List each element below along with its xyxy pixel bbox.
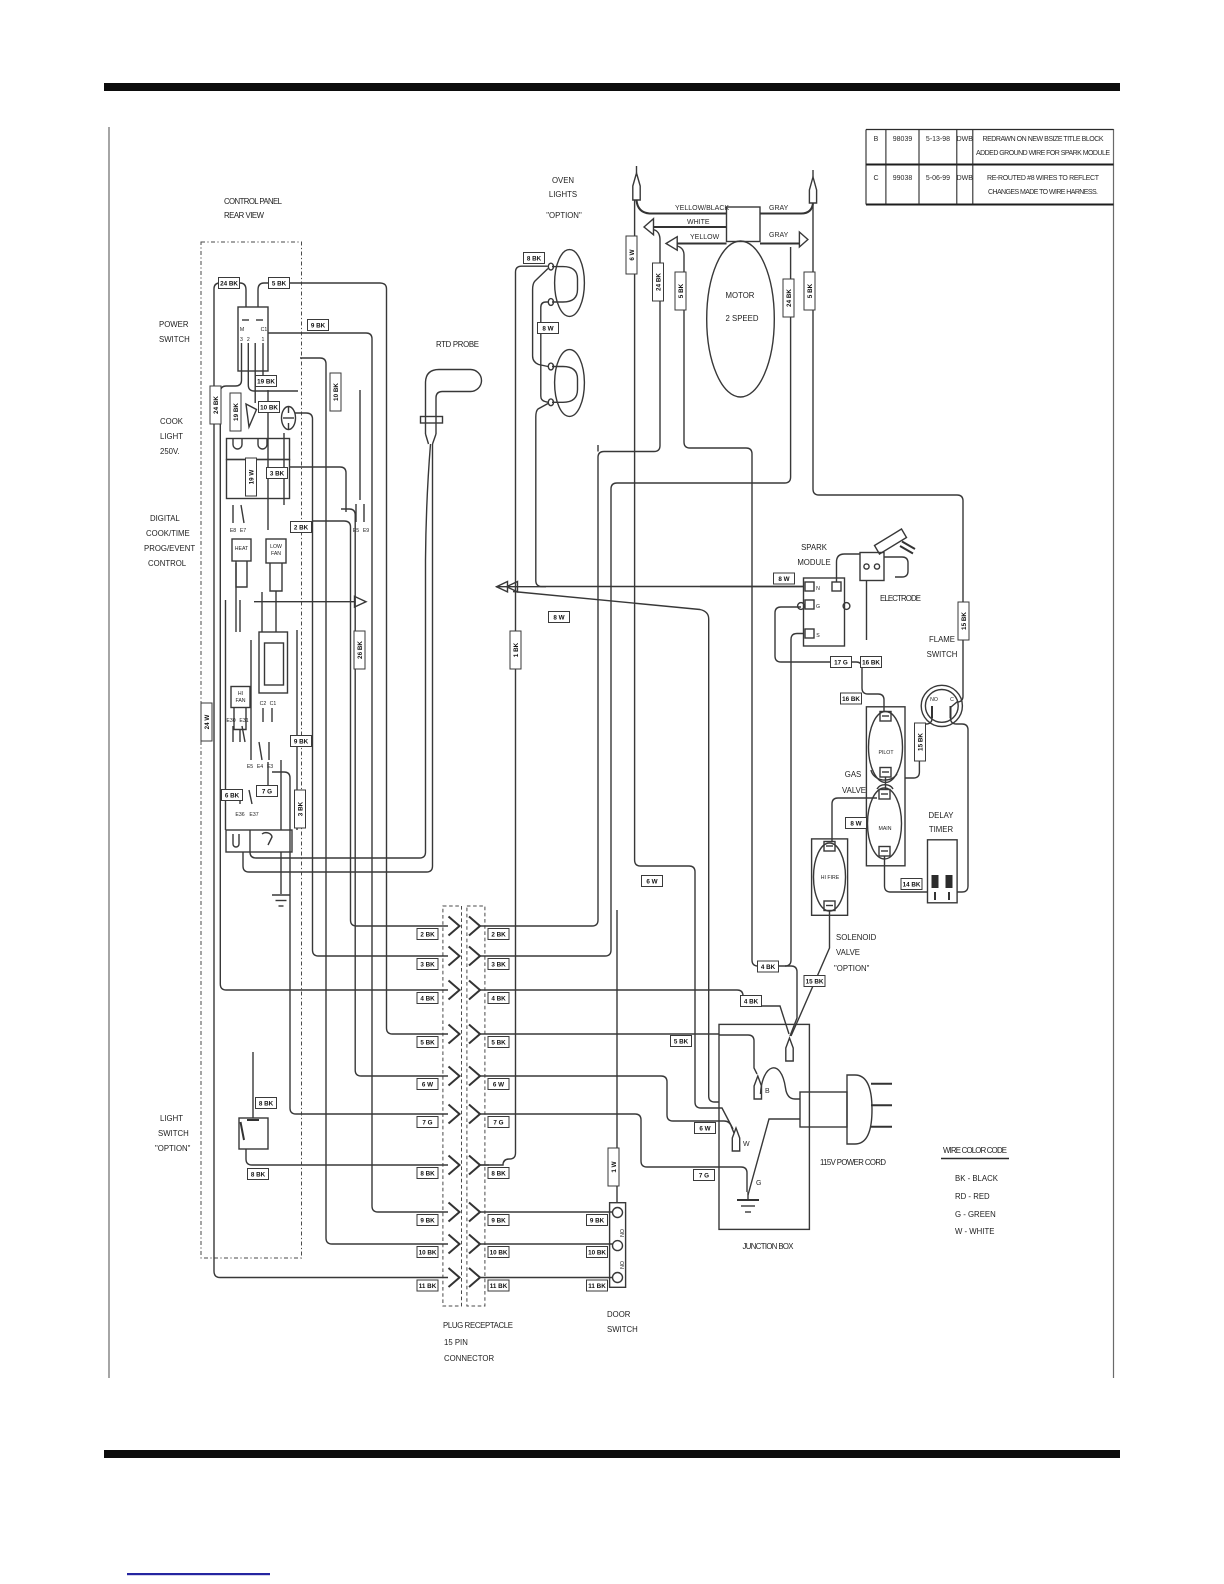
wire: row 2 to white spade — [480, 230, 660, 927]
svg-text:7 G: 7 G — [699, 1173, 709, 1180]
electrode terminal block — [860, 553, 884, 581]
rotated label 15 BK gas — [915, 723, 926, 761]
wire: motor gray upper — [760, 203, 813, 214]
plug pin 5 label — [417, 1037, 438, 1048]
svg-text:5 BK: 5 BK — [678, 283, 685, 298]
svg-text:4 BK: 4 BK — [491, 996, 506, 1003]
svg-text:24 BK: 24 BK — [786, 289, 793, 307]
receptacle pin 6 label — [488, 1079, 509, 1090]
svg-text:NO: NO — [620, 1229, 626, 1237]
svg-text:17 G: 17 G — [834, 660, 848, 667]
wire: row 11 to door switch — [480, 1277, 613, 1279]
svg-text:9 BK: 9 BK — [590, 1218, 605, 1225]
svg-text:E37: E37 — [249, 812, 258, 818]
svg-text:250V.: 250V. — [160, 447, 180, 456]
plug pin 4 label — [417, 993, 438, 1004]
svg-text:24 BK: 24 BK — [220, 281, 238, 288]
delay timer box — [928, 840, 958, 903]
power cord block — [800, 1092, 847, 1127]
wire label 19 BK — [256, 376, 277, 387]
svg-text:3 BK: 3 BK — [270, 471, 285, 478]
svg-text:10 BK: 10 BK — [588, 1250, 606, 1257]
wire: gas valve 8 W to solenoid — [832, 798, 877, 842]
svg-text:PILOT: PILOT — [879, 750, 895, 756]
connector pin 5 arrows — [449, 1025, 481, 1044]
wire label 7 G right — [694, 1170, 715, 1181]
wire: bulb 2 to spark module 8 W — [536, 404, 804, 587]
wire label 4 BK a — [758, 961, 779, 972]
svg-text:SWITCH: SWITCH — [927, 650, 958, 659]
wire: row 6 into junction — [480, 1076, 719, 1121]
rotated label 1 W door — [608, 1148, 619, 1186]
svg-text:PLUG RECEPTACLE: PLUG RECEPTACLE — [443, 1321, 513, 1330]
svg-text:24 W: 24 W — [204, 715, 211, 730]
svg-text:DWB: DWB — [957, 175, 974, 182]
wire: door switch riser — [616, 910, 618, 1202]
rotated label 5 BK motor right — [804, 272, 815, 310]
svg-text:C1: C1 — [261, 327, 268, 333]
plug pin 2 label — [417, 929, 438, 940]
wire: flame switch left pin to gas valve — [905, 718, 932, 778]
rotated label 24 W panel — [201, 703, 212, 741]
wire: spark to electrode block — [837, 554, 861, 582]
receptacle pin 5 label — [488, 1037, 509, 1048]
digital control relay box — [259, 632, 288, 693]
spade pair on 8 W line — [497, 582, 518, 592]
svg-text:E5: E5 — [247, 764, 253, 770]
svg-text:RD - RED: RD - RED — [955, 1192, 990, 1201]
svg-text:FLAME: FLAME — [929, 635, 955, 644]
svg-text:8 W: 8 W — [850, 821, 861, 828]
control panel dashed outline — [201, 242, 302, 1258]
wire label 6 BK mid — [222, 790, 243, 801]
connector pin 8 arrows — [449, 1156, 481, 1175]
wire: junction internal to W — [719, 1121, 734, 1133]
svg-text:8 BK: 8 BK — [259, 1101, 274, 1108]
svg-text:11 BK: 11 BK — [490, 1283, 508, 1290]
svg-text:7 G: 7 G — [493, 1120, 503, 1127]
svg-text:VALVE: VALVE — [836, 948, 860, 957]
connector pin 11 arrows — [449, 1268, 481, 1287]
connector pin 9 arrows — [449, 1203, 481, 1222]
svg-text:8 BK: 8 BK — [420, 1171, 435, 1178]
wire label 2 BK — [291, 522, 312, 533]
wire: panel vertical L — [239, 729, 241, 742]
svg-text:FAN: FAN — [271, 551, 281, 557]
wire label 9 BK — [308, 320, 329, 331]
svg-text:GRAY: GRAY — [769, 232, 789, 239]
wire 8 BK: light switch to row 8 — [246, 1149, 448, 1165]
sheet right border — [1113, 129, 1115, 1378]
svg-text:CONNECTOR: CONNECTOR — [444, 1354, 494, 1363]
wire to row 10 — [300, 358, 448, 1244]
svg-text:DELAY: DELAY — [929, 811, 955, 820]
rotated label 10 BK panel — [330, 373, 341, 411]
spark module box — [804, 578, 845, 646]
wire: panel 8 W feed with spade — [254, 601, 354, 603]
svg-text:LIGHT: LIGHT — [160, 432, 183, 441]
wire: panel vertical F — [261, 592, 263, 632]
svg-text:WIRE COLOR CODE: WIRE COLOR CODE — [943, 1146, 1007, 1155]
svg-text:10 BK: 10 BK — [333, 383, 340, 401]
wire: electrode block down — [866, 581, 868, 641]
junction bullet B — [754, 1076, 761, 1099]
svg-text:TIMER: TIMER — [929, 825, 954, 834]
svg-text:MOTOR: MOTOR — [726, 291, 755, 300]
rotated label 5 BK motor left — [675, 272, 686, 310]
svg-text:GAS: GAS — [845, 770, 861, 779]
connector pin 2 arrows — [449, 917, 481, 936]
svg-text:2 BK: 2 BK — [491, 932, 506, 939]
wire: spark S to 4 BK run — [785, 634, 804, 967]
wire label 8 BK switch top — [256, 1098, 277, 1109]
wire: rtd pair outer — [243, 444, 433, 872]
wire label 15 BK — [804, 976, 825, 987]
svg-text:COOK: COOK — [160, 417, 184, 426]
svg-text:CHANGES MADE TO WIRE HARNESS.: CHANGES MADE TO WIRE HARNESS. — [988, 189, 1098, 196]
svg-text:5 BK: 5 BK — [674, 1039, 689, 1046]
wire: panel vertical C — [296, 630, 298, 830]
svg-text:1 W: 1 W — [611, 1161, 618, 1172]
wire: panel vertical B — [283, 433, 285, 505]
svg-text:8 BK: 8 BK — [491, 1171, 506, 1178]
svg-text:2 SPEED: 2 SPEED — [726, 314, 759, 323]
svg-text:4 BK: 4 BK — [420, 996, 435, 1003]
bullet connector (motor top right) — [809, 177, 816, 203]
svg-text:"OPTION": "OPTION" — [546, 211, 582, 220]
wire 4 BK: power switch pin to row 4 — [220, 375, 448, 990]
wire: row 3 to gray spade — [480, 247, 791, 956]
rotated label mid drop — [354, 631, 365, 669]
svg-text:ELECTRODE: ELECTRODE — [880, 594, 921, 603]
oven light bulb 2 — [555, 350, 585, 417]
wire: spark module input 8 W — [700, 586, 804, 588]
svg-text:MODULE: MODULE — [797, 558, 830, 567]
svg-text:5 BK: 5 BK — [491, 1040, 506, 1047]
svg-text:9 BK: 9 BK — [311, 323, 326, 330]
svg-text:14 BK: 14 BK — [903, 882, 921, 889]
svg-text:15 PIN: 15 PIN — [444, 1338, 468, 1347]
wire label 7 G mid — [257, 786, 278, 797]
wire label 5 BK — [269, 278, 290, 289]
wire: flame switch right pin to delay timer — [951, 718, 969, 892]
wire 5 BK: power switch top to row 5 — [258, 283, 448, 1034]
svg-text:SWITCH: SWITCH — [159, 335, 190, 344]
svg-text:1: 1 — [262, 337, 265, 343]
wire 8 W: spark feed diagonal — [513, 592, 719, 1103]
svg-text:9 BK: 9 BK — [294, 739, 309, 746]
svg-text:YELLOW/BLACK: YELLOW/BLACK — [675, 205, 729, 212]
wire label 8 W spark — [774, 573, 795, 584]
LOW FAN relay — [266, 539, 286, 563]
junction bullet W — [732, 1128, 739, 1151]
wire: solenoid to junction 15 BK — [791, 911, 830, 1037]
svg-text:8 BK: 8 BK — [251, 1172, 266, 1179]
svg-text:10 BK: 10 BK — [260, 405, 278, 412]
wire: panel vertical A — [267, 390, 269, 530]
plug pin 8 label — [417, 1168, 438, 1179]
svg-text:3 BK: 3 BK — [298, 801, 305, 816]
rotated label 3 BK panel — [295, 790, 306, 828]
wire label 5 BK right — [671, 1036, 692, 1047]
svg-text:6 W: 6 W — [493, 1082, 504, 1089]
wire label 16 BK a — [861, 657, 882, 668]
main coil — [868, 788, 902, 859]
svg-text:JUNCTION BOX: JUNCTION BOX — [743, 1242, 795, 1251]
svg-text:8 W: 8 W — [542, 326, 553, 333]
svg-text:26 BK: 26 BK — [357, 641, 364, 659]
svg-text:W: W — [743, 1141, 750, 1148]
svg-text:G: G — [816, 604, 820, 610]
rotated label 1 BK row8 line — [510, 631, 521, 669]
wire: panel vertical D — [359, 390, 361, 500]
gas valve box — [866, 707, 905, 866]
receptacle pin 11 label — [488, 1280, 509, 1291]
svg-text:5-06-99: 5-06-99 — [926, 175, 950, 182]
power switch S1 — [238, 307, 268, 371]
wire: gray bullet to flame switch — [813, 203, 963, 707]
wire label 10 BK — [259, 402, 280, 413]
spade connector (yellow wire) — [666, 237, 677, 251]
svg-text:2 BK: 2 BK — [420, 932, 435, 939]
wire: panel vertical K — [239, 600, 241, 632]
wire: panel vertical M — [267, 762, 269, 790]
svg-text:DOOR: DOOR — [607, 1310, 631, 1319]
electrode — [875, 529, 907, 554]
electrode bracket — [884, 557, 908, 577]
HI FAN relay — [231, 687, 250, 708]
svg-text:HI FIRE: HI FIRE — [821, 875, 840, 881]
svg-text:15 BK: 15 BK — [961, 612, 968, 630]
svg-text:9 BK: 9 BK — [420, 1218, 435, 1225]
svg-text:10 BK: 10 BK — [490, 1250, 508, 1257]
rotated label power left a — [210, 386, 221, 424]
spade connector (gray wire right) — [799, 232, 808, 247]
svg-text:15 BK: 15 BK — [918, 733, 925, 751]
svg-text:1 BK: 1 BK — [513, 642, 520, 657]
rotated label 24 BK motor left — [653, 263, 664, 301]
svg-text:E9: E9 — [363, 528, 369, 534]
wire label 16 BK b — [841, 693, 862, 704]
wire: main to delay timer 14 BK — [885, 856, 928, 892]
contacts E5 E4 E3 — [251, 742, 269, 760]
light switch — [239, 1118, 268, 1149]
motor M1 2-speed — [707, 241, 775, 397]
svg-text:7 G: 7 G — [262, 789, 272, 796]
wire: motor gray lower — [760, 243, 799, 245]
wire: yellow spade to junction 4 BK — [677, 246, 797, 1036]
svg-text:B: B — [874, 136, 879, 143]
svg-text:"OPTION": "OPTION" — [834, 964, 870, 973]
svg-text:11 BK: 11 BK — [588, 1283, 606, 1290]
svg-text:C2: C2 — [260, 701, 267, 707]
svg-text:10 BK: 10 BK — [419, 1250, 437, 1257]
sheet left border — [108, 127, 110, 1378]
svg-text:HEAT: HEAT — [235, 546, 249, 552]
svg-text:C: C — [873, 175, 878, 182]
svg-text:PROG/EVENT: PROG/EVENT — [144, 544, 195, 553]
wire: 6 W bullet drop to junction — [635, 200, 733, 1129]
wire: row 9 to door switch — [480, 1211, 613, 1213]
plug pin 10 label — [417, 1247, 438, 1258]
svg-text:E36: E36 — [235, 812, 244, 818]
svg-text:E5: E5 — [353, 528, 359, 534]
wire label 24 BK — [219, 278, 240, 289]
svg-text:SWITCH: SWITCH — [158, 1129, 189, 1138]
svg-text:E8: E8 — [230, 528, 236, 534]
svg-text:DIGITAL: DIGITAL — [150, 514, 180, 523]
svg-text:NO: NO — [930, 697, 938, 703]
svg-text:B: B — [765, 1088, 770, 1095]
wire: panel vertical H — [225, 600, 227, 830]
svg-text:6 W: 6 W — [646, 879, 657, 886]
power plug — [847, 1075, 872, 1144]
receptacle pin 4 label — [488, 993, 509, 1004]
pilot coil — [869, 712, 903, 783]
svg-text:YELLOW: YELLOW — [690, 234, 720, 241]
bottom rule bar — [104, 1450, 1120, 1458]
wire: motor white — [654, 226, 727, 228]
svg-text:11 BK: 11 BK — [419, 1283, 437, 1290]
svg-text:6 W: 6 W — [629, 249, 636, 260]
svg-text:REAR VIEW: REAR VIEW — [224, 211, 265, 220]
plug column dashed — [443, 906, 462, 1306]
wire label 11 BK door — [587, 1280, 608, 1291]
wire 6 W: contact to row 6 — [341, 509, 448, 1076]
receptacle pin 9 label — [488, 1215, 509, 1226]
svg-text:CONTROL: CONTROL — [148, 559, 187, 568]
plug pin 9 label — [417, 1215, 438, 1226]
svg-text:M: M — [240, 327, 244, 333]
svg-text:POWER: POWER — [159, 320, 189, 329]
rotated label 15 BK flame — [958, 602, 969, 640]
svg-text:GRAY: GRAY — [769, 205, 789, 212]
door switch — [610, 1203, 626, 1288]
wire: row 7 to junction G — [480, 1114, 747, 1192]
wire: panel vertical I — [250, 640, 252, 742]
rotated label 6 W motor left — [626, 236, 637, 274]
svg-text:16 BK: 16 BK — [862, 660, 880, 667]
svg-text:6 W: 6 W — [422, 1082, 433, 1089]
svg-text:99038: 99038 — [893, 175, 913, 182]
svg-text:15 BK: 15 BK — [806, 979, 824, 986]
wire: row 10 to door switch — [480, 1243, 613, 1245]
svg-text:19 BK: 19 BK — [257, 379, 275, 386]
svg-text:24 BK: 24 BK — [656, 273, 663, 291]
svg-text:115V POWER CORD: 115V POWER CORD — [820, 1158, 886, 1167]
svg-text:NO: NO — [620, 1261, 626, 1269]
svg-text:6 BK: 6 BK — [225, 793, 240, 800]
junction bullet top — [786, 1038, 793, 1061]
wire 19 BK stub — [248, 375, 298, 391]
svg-text:5-13-98: 5-13-98 — [926, 136, 950, 143]
svg-text:C1: C1 — [270, 701, 277, 707]
wire label 8 W left — [549, 612, 570, 623]
wire: junction internal to B — [719, 1035, 757, 1074]
bullet connector (motor top left) — [633, 173, 640, 200]
receptacle pin 2 label — [488, 929, 509, 940]
wire 2 BK: contact to row 2 — [313, 521, 448, 926]
svg-text:9 BK: 9 BK — [491, 1218, 506, 1225]
wire label 8 W oven — [538, 323, 559, 334]
svg-text:16 BK: 16 BK — [842, 696, 860, 703]
wire label 9 BK mid — [291, 736, 312, 747]
top rule bar — [104, 83, 1120, 91]
motor terminal box — [727, 207, 761, 242]
svg-text:5 BK: 5 BK — [420, 1040, 435, 1047]
svg-text:5 BK: 5 BK — [272, 281, 287, 288]
connector pin 6 arrows — [449, 1067, 481, 1086]
svg-text:4 BK: 4 BK — [761, 964, 776, 971]
wire label 8 BK switch bottom — [248, 1169, 269, 1180]
HEAT relay — [232, 539, 251, 561]
receptacle pin 10 label — [488, 1247, 509, 1258]
svg-text:MAIN: MAIN — [879, 826, 892, 832]
wire label 6 W right — [695, 1123, 716, 1134]
svg-text:2 BK: 2 BK — [294, 525, 309, 532]
wire label 8 W gas — [846, 818, 867, 829]
wire label 3 BK — [267, 468, 288, 479]
wire 24 BK: power switch top to row 11 — [214, 283, 448, 1278]
junction box — [719, 1024, 809, 1229]
svg-text:6 W: 6 W — [699, 1126, 710, 1133]
wire: motor bullet feed left — [597, 445, 599, 452]
contacts E36 E37 box — [226, 830, 292, 852]
connector pin 4 arrows — [449, 981, 481, 1000]
rtd probe body — [426, 370, 471, 435]
svg-text:SWITCH: SWITCH — [607, 1325, 638, 1334]
wire 10 BK: cook light to row 3 — [295, 413, 448, 956]
wire 7 G: panel to row 7 — [272, 772, 448, 1114]
cook light lamp — [246, 404, 257, 427]
svg-text:WHITE: WHITE — [687, 219, 710, 226]
flame switch — [921, 685, 962, 726]
svg-text:LIGHTS: LIGHTS — [549, 190, 577, 199]
wire: pilot to main — [885, 777, 887, 790]
svg-text:E30: E30 — [226, 718, 235, 724]
wire label 6 W mid — [642, 876, 663, 887]
svg-text:19 W: 19 W — [249, 470, 256, 485]
wire 9 BK: power switch to row 9 — [268, 333, 448, 1212]
svg-text:4 BK: 4 BK — [744, 999, 759, 1006]
svg-text:SPARK: SPARK — [801, 543, 828, 552]
revision table — [866, 129, 1114, 131]
footer link underline — [127, 1573, 270, 1575]
svg-text:N: N — [816, 586, 820, 592]
wire label 8 BK oven — [524, 253, 545, 264]
receptacle column dashed — [467, 906, 485, 1306]
wire label 14 BK — [901, 879, 922, 890]
svg-text:LOW: LOW — [270, 544, 282, 550]
svg-text:COOK/TIME: COOK/TIME — [146, 529, 190, 538]
connector pin 10 arrows — [449, 1235, 481, 1254]
wire: bulb terminal 1 to 3 — [533, 269, 548, 367]
wire: row 4 to junction B — [480, 990, 789, 1034]
svg-text:FAN: FAN — [235, 698, 245, 704]
wire: spark G loop to gas valve 16 BK — [775, 607, 884, 712]
wire: motor yellow — [677, 243, 726, 245]
svg-text:S: S — [816, 633, 820, 639]
plug pin 11 label — [417, 1280, 438, 1291]
wire label 4 BK b — [741, 996, 762, 1007]
wire: oven light 8 BK to row 8 — [480, 266, 548, 1165]
relay strip upper — [227, 439, 290, 460]
svg-text:2: 2 — [247, 337, 250, 343]
wire 3 BK stub — [290, 467, 347, 512]
plug pin 7 label — [417, 1117, 438, 1128]
ground (control panel) — [280, 852, 282, 894]
svg-text:3: 3 — [240, 337, 243, 343]
